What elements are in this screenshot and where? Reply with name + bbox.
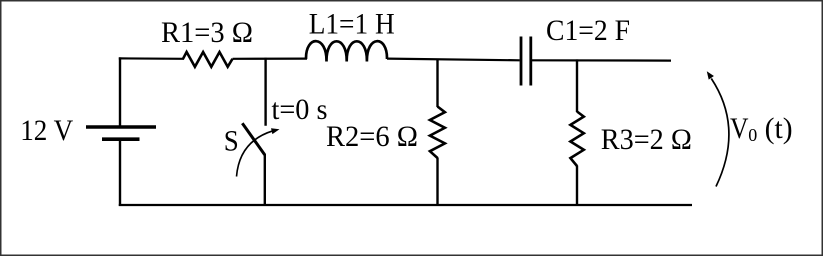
resistor R1 xyxy=(183,52,233,67)
wire: top rail from corner to R1 xyxy=(119,57,184,60)
capacitor C1 xyxy=(521,37,531,86)
svg-text:t=0 s: t=0 s xyxy=(272,93,328,126)
resistor R2 xyxy=(430,107,445,159)
switch closing direction arrow xyxy=(237,128,280,176)
svg-text:12 V: 12 V xyxy=(20,114,73,147)
svg-text:C1=2 F: C1=2 F xyxy=(546,14,630,47)
svg-text:R3=2 Ω: R3=2 Ω xyxy=(601,123,692,156)
wire: R2 upper lead xyxy=(436,59,438,107)
wire: battery positive terminal up to top-left corner xyxy=(119,57,121,126)
wire: bottom rail xyxy=(119,204,692,206)
svg-text:R2=6 Ω: R2=6 Ω xyxy=(326,120,418,153)
svg-text:L1=1 H: L1=1 H xyxy=(309,8,395,41)
switch S blade xyxy=(242,123,264,155)
svg-text:V: V xyxy=(730,112,749,145)
svg-text:(t): (t) xyxy=(765,112,793,145)
wire: R2 lower lead xyxy=(436,158,438,207)
wire: switch lower lead to bottom rail xyxy=(264,154,266,206)
wire: battery negative terminal down to bottom rail xyxy=(119,140,121,207)
wire: R1 to L1 (switch tap node) xyxy=(233,57,308,59)
output voltage arrow V0 xyxy=(707,71,729,186)
resistor R3 xyxy=(570,112,583,167)
svg-text:S: S xyxy=(224,125,239,158)
wire: R3 lower lead xyxy=(576,166,578,207)
wire: C1 to right end of top rail (R3 tap node) xyxy=(532,59,671,61)
switch S: upper lead from tap node xyxy=(264,58,266,126)
wire: R3 upper lead xyxy=(576,59,578,112)
wire: L1 to C1 (R2 tap node) xyxy=(387,59,520,61)
inductor L1 xyxy=(306,41,387,61)
svg-text:0: 0 xyxy=(748,125,757,145)
svg-text:R1=3 Ω: R1=3 Ω xyxy=(161,16,253,49)
battery V1 (12 V source) xyxy=(86,127,156,139)
label V0 (t) xyxy=(730,112,793,145)
